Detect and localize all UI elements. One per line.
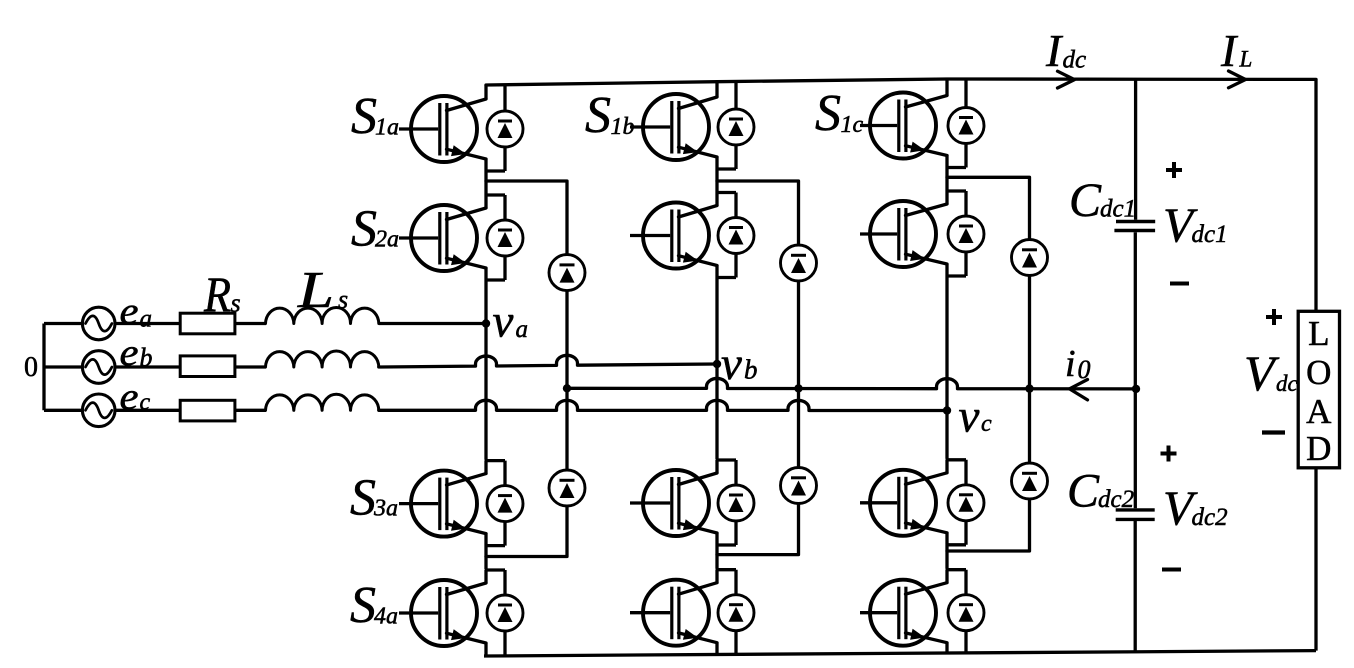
svg-text:3a: 3a (373, 496, 398, 522)
antiparallel diode of S3b (718, 460, 754, 545)
wire phase c to v_c (hops over leg-a/b wires) (379, 400, 947, 410)
label S1b (585, 87, 635, 144)
svg-text:L: L (297, 262, 334, 319)
transistor S3a (399, 461, 505, 546)
wire S1c-S2c midpoint (945, 168, 948, 192)
wire DC link vertical bottom (1134, 520, 1137, 652)
wire S2b emitter down to S3b collector (phase node v_b) (715, 278, 718, 460)
wire lower clamp branch leg a (486, 388, 567, 556)
label L_s (297, 262, 348, 319)
arrow I_dc (1058, 71, 1075, 88)
transistor S1b (630, 82, 736, 169)
wire lower clamp branch leg c (947, 388, 1030, 551)
wire e_c to R_s (114, 409, 180, 412)
label C_dc1 (1069, 174, 1136, 227)
junction dot clamp leg c / midpoint (1025, 384, 1033, 392)
wire midpoint i_0 line (567, 378, 1136, 388)
wire upper clamp branch leg b (717, 181, 799, 388)
transistor S1c (860, 79, 966, 168)
wire e_b to R_s (115, 365, 181, 368)
wire upper clamp branch leg a (486, 181, 567, 388)
wire e_c to neutral (44, 409, 83, 412)
svg-text:C: C (1067, 465, 1100, 518)
clamping diode lower D leg a (549, 470, 585, 506)
svg-text:C: C (1069, 174, 1102, 227)
svg-text:R: R (203, 266, 231, 322)
wire top DC bus (486, 79, 1316, 85)
svg-text:dc1: dc1 (1192, 221, 1228, 248)
wire upper clamp branch leg c (947, 177, 1030, 388)
node v_c junction dot (943, 406, 951, 414)
antiparallel diode of S1a (487, 85, 523, 171)
antiparallel diode of S2b (718, 193, 754, 278)
label LOAD (1306, 314, 1332, 468)
minus sign load (1262, 430, 1285, 434)
label V_dc1 (1163, 198, 1228, 253)
svg-text:4a: 4a (374, 604, 398, 630)
capacitor C_dc1 (1114, 222, 1155, 231)
svg-text:dc2: dc2 (1098, 486, 1134, 513)
svg-text:e: e (120, 291, 139, 333)
AC source e_a (82, 307, 115, 340)
wire R_s to L_s phase c (235, 409, 266, 412)
label v_c (959, 391, 993, 443)
svg-text:0: 0 (1078, 355, 1091, 384)
antiparallel diode of S1b (718, 82, 754, 169)
transistor S4b (630, 570, 736, 655)
wire S1a-S2a midpoint (484, 171, 487, 195)
clamping diode upper D leg a (549, 255, 585, 291)
antiparallel diode of S2c (948, 191, 984, 276)
clamping diode lower D leg b (781, 468, 817, 504)
antiparallel diode of S3c (948, 460, 984, 545)
wire DC link vertical top (1134, 79, 1137, 220)
label V_dc2 (1163, 481, 1228, 536)
wire e_a to R_s (114, 322, 180, 325)
svg-text:s: s (338, 285, 348, 314)
AC source e_b (82, 351, 115, 384)
antiparallel diode of S4b (718, 570, 754, 655)
label S4a (350, 577, 398, 634)
svg-text:A: A (1306, 392, 1332, 431)
inductor L_s phase c (266, 394, 379, 410)
load box (1298, 311, 1339, 468)
transistor S3c (860, 460, 966, 545)
antiparallel diode of S1c (948, 79, 984, 168)
antiparallel diode of S3a (487, 461, 523, 546)
AC source e_c (82, 394, 115, 427)
wire S3a-S4a midpoint (484, 546, 487, 569)
wire right branch bottom (1314, 468, 1317, 651)
label I_dc (1045, 25, 1086, 76)
antiparallel diode of S2a (487, 195, 523, 280)
wire S2a emitter down to S3a collector (phase node v_a) (484, 280, 487, 460)
junction dot clamp leg b / midpoint (794, 384, 802, 392)
label e_a (120, 291, 153, 333)
svg-text:S: S (351, 88, 377, 145)
label i_0 (1065, 343, 1091, 385)
label S1c (815, 85, 864, 142)
resistor R_s phase b (180, 356, 235, 377)
svg-text:dc: dc (1276, 371, 1298, 396)
clamping diode upper D leg b (781, 245, 817, 281)
label e_c (120, 376, 151, 418)
wire DC link vertical middle (1134, 232, 1137, 508)
wire S2c emitter down to S3c collector (phase node v_c) (945, 276, 948, 459)
wire left vertical neutral bus (42, 324, 45, 411)
svg-text:a: a (516, 316, 529, 343)
svg-text:b: b (744, 355, 758, 385)
wire phase a to v_a (379, 322, 486, 325)
svg-text:dc2: dc2 (1192, 504, 1228, 531)
arrow I_L (1229, 71, 1246, 88)
svg-text:1c: 1c (841, 112, 864, 138)
label S3a (350, 470, 398, 527)
wire e_b to neutral (44, 365, 83, 368)
svg-text:a: a (140, 306, 153, 333)
svg-text:I: I (1220, 25, 1239, 76)
svg-text:S: S (815, 85, 841, 142)
resistor R_s phase c (180, 400, 235, 421)
svg-text:s: s (231, 289, 241, 318)
wire right branch top (1314, 79, 1317, 311)
svg-text:dc1: dc1 (1100, 196, 1136, 223)
label S1a (351, 88, 399, 145)
wire R_s to L_s phase a (235, 322, 266, 325)
label S2a (351, 201, 399, 258)
transistor S1a (399, 85, 505, 171)
svg-text:S: S (351, 201, 377, 258)
junction dot clamp leg a / midpoint (563, 384, 571, 392)
svg-text:L: L (1308, 314, 1329, 353)
svg-text:2a: 2a (375, 227, 399, 253)
wire lower clamp branch leg b (717, 388, 799, 554)
label R_s (203, 266, 241, 322)
wire e_a to neutral (44, 322, 83, 325)
node 0 (neutral) label (24, 352, 38, 383)
svg-text:I: I (1045, 25, 1064, 76)
label I_L (1220, 25, 1252, 76)
wire S3c-S4c midpoint (945, 545, 948, 569)
label v_a (493, 296, 529, 348)
label v_b (721, 338, 758, 390)
transistor S3b (630, 460, 736, 545)
node v_b junction dot (713, 360, 721, 368)
node v_a junction dot (482, 319, 490, 327)
transistor S2c (860, 191, 966, 276)
svg-text:v: v (959, 391, 980, 443)
label C_dc2 (1067, 465, 1134, 518)
transistor S4a (399, 570, 505, 656)
svg-text:1b: 1b (611, 114, 635, 140)
inductor L_s phase a (266, 307, 379, 323)
minus sign C_dc1 (1170, 282, 1189, 286)
svg-text:D: D (1306, 429, 1331, 468)
label V_dc (1244, 345, 1298, 401)
wire bottom DC bus (484, 651, 1316, 656)
svg-text:S: S (350, 470, 376, 527)
minus sign C_dc2 (1162, 568, 1181, 572)
junction dot midpoint / DC link (1132, 385, 1140, 393)
clamping diode upper D leg c (1012, 240, 1048, 276)
svg-text:S: S (350, 577, 376, 634)
label e_b (120, 332, 153, 374)
svg-text:1a: 1a (375, 115, 399, 141)
resistor R_s phase a (180, 313, 235, 334)
transistor S2b (630, 193, 736, 278)
clamping diode lower D leg c (1012, 463, 1048, 499)
svg-text:L: L (1239, 47, 1253, 72)
wire phase b to v_b (hops over leg-a wires) (379, 355, 717, 367)
capacitor C_dc2 (1116, 510, 1155, 520)
svg-text:dc: dc (1063, 46, 1087, 73)
svg-text:v: v (493, 296, 514, 348)
wire R_s to L_s phase b (235, 365, 266, 368)
svg-text:c: c (981, 411, 992, 437)
inductor L_s phase b (266, 351, 379, 367)
svg-text:i: i (1065, 343, 1076, 385)
arrow i_0 (pointing left) (1070, 380, 1088, 400)
svg-text:O: O (1306, 353, 1331, 392)
svg-text:S: S (585, 87, 611, 144)
plus sign C_dc1 (1166, 162, 1182, 178)
transistor S2a (399, 195, 505, 280)
antiparallel diode of S4a (487, 570, 523, 656)
transistor S4c (860, 570, 966, 653)
wire S3b-S4b midpoint (715, 545, 718, 569)
plus sign C_dc2 (1161, 446, 1177, 462)
svg-text:0: 0 (24, 352, 38, 383)
wire S1b-S2b midpoint (715, 169, 718, 193)
antiparallel diode of S4c (948, 570, 984, 653)
plus sign load (1266, 309, 1282, 325)
